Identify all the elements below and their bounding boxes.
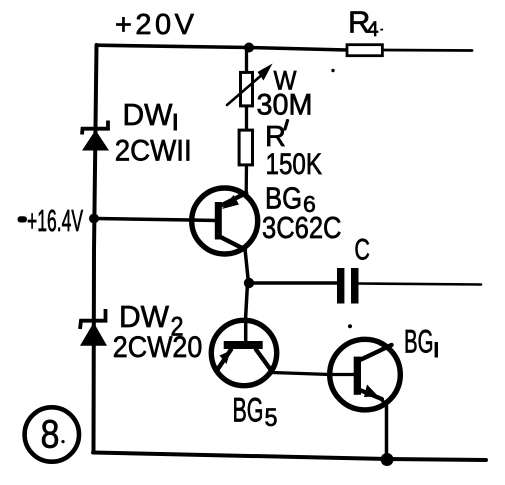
svg-text:5: 5 (265, 404, 278, 432)
label BG5 (233, 392, 278, 433)
wire node to capacitor C (249, 281, 337, 285)
label BG1 (404, 323, 436, 359)
svg-text:C: C (354, 234, 370, 267)
svg-text:DW: DW (123, 97, 174, 132)
zener diode DW1 (82, 121, 109, 151)
node junction dot at bottom rail (381, 453, 394, 466)
wire top rail right segment (382, 49, 472, 52)
svg-text:BG: BG (233, 392, 264, 430)
zener diode DW2 (80, 309, 107, 346)
svg-text:+16.4V: +16.4V (27, 203, 83, 238)
resistor R' (239, 130, 252, 165)
wire rail to potentiometer W (245, 48, 248, 73)
svg-text:4: 4 (367, 18, 379, 41)
wire BG6 collector to node (245, 249, 249, 283)
label +16.4V node voltage (18, 203, 84, 238)
wire BG5 collector to BG1 base (272, 373, 355, 375)
wire bottom rail (93, 453, 486, 461)
node junction dot at +20V rail (244, 43, 254, 53)
label DW1 (123, 97, 176, 132)
transistor BG1 (330, 339, 401, 410)
resistor R4 (347, 45, 382, 56)
wire top rail left segment (97, 45, 347, 50)
svg-text:2CWII: 2CWII (115, 135, 192, 168)
svg-text:30M: 30M (257, 89, 313, 122)
transistor BG6 (192, 188, 258, 254)
svg-text:2CW20: 2CW20 (113, 331, 203, 364)
figure number 8 (25, 407, 79, 461)
svg-text:8: 8 (41, 413, 60, 457)
stray dot near W (331, 69, 334, 72)
wire node down to BG5 base (246, 283, 248, 341)
potentiometer W (227, 64, 273, 106)
transistor BG5 (211, 320, 276, 385)
svg-text:DW: DW (119, 299, 170, 334)
wire capacitor C to right edge (359, 284, 482, 285)
label R' (265, 121, 288, 154)
svg-text:3C62C: 3C62C (262, 211, 342, 245)
wire BG1 emitter down to bottom rail (381, 399, 387, 460)
node junction dot BG6 collector / C (244, 278, 254, 288)
wire W to R' (245, 105, 248, 131)
label R4 (348, 5, 383, 41)
svg-text:+20V: +20V (115, 9, 195, 41)
svg-text:150K: 150K (266, 148, 323, 181)
wire left vertical rail (94, 45, 97, 452)
capacitor C (337, 268, 359, 304)
wire R' to BG6 emitter (245, 164, 249, 194)
svg-text:BG: BG (404, 323, 434, 359)
wire base feed BG6 from +16.4V node (96, 219, 216, 221)
node junction dot at +16.4V (89, 214, 99, 224)
stray dot near BG1 (348, 324, 352, 328)
label BG6 (265, 180, 316, 217)
label DW2 (119, 299, 184, 341)
